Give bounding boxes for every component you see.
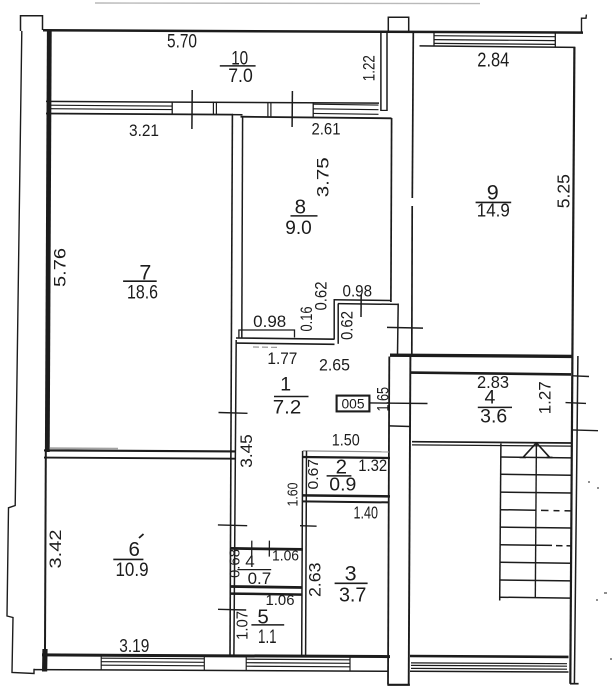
divider wall rooms 2/3/4/5 [301,451,304,655]
svg-text:1.27: 1.27 [536,381,555,414]
door sill hall-stairwell [389,425,410,428]
svg-text:1.22: 1.22 [360,55,379,81]
svg-text:1.07: 1.07 [235,611,252,640]
window room 8 top [313,102,379,117]
small mark above 6 [139,534,144,538]
right wall bottom foot [570,683,579,685]
svg-text:2.84: 2.84 [477,50,509,72]
balcony right wall [381,32,387,112]
svg-text:2.65: 2.65 [319,357,350,375]
step wall verticals [333,301,335,340]
svg-text:1.77: 1.77 [267,350,297,368]
right wall dimension ticks [573,375,589,378]
scan specks right side [588,481,612,660]
svg-text:1.1: 1.1 [258,627,277,648]
balcony bottom wall lower line (room 7 top) [46,114,233,115]
wall between rooms 7 and 8 (left line, continues to room 6) [230,114,232,655]
section wall upper (with scan gap) [412,32,413,198]
room 8 top wall [241,117,392,119]
stairwell bottom wall [410,655,569,659]
building outline top-right corner [582,15,587,33]
window rooms 5/3 bottom [246,655,350,671]
svg-text:7.2: 7.2 [273,397,302,419]
room 4 small bottom wall [231,587,303,588]
chimney block top-middle [388,17,408,31]
room 3 top wall [303,501,390,502]
svg-text:3.19: 3.19 [119,635,149,656]
partition hall/entry left [397,304,400,356]
dimension tick entry wall [387,326,423,329]
exterior wall left [47,31,49,452]
svg-text:1.50: 1.50 [332,430,360,449]
stairwell window bottom [411,663,567,669]
dimension leader 1.65/1.27 [370,402,428,405]
svg-text:1.06: 1.06 [272,549,299,565]
tick room 5 [218,608,246,611]
svg-text:1.65: 1.65 [374,387,392,412]
stairwell top wall [412,442,571,443]
room 4 small top wall [231,548,303,549]
building outline left side [7,31,34,674]
svg-text:2.63: 2.63 [306,563,325,598]
band bottom connector over divider wall [232,114,243,116]
room 5 top wall [231,594,303,595]
svg-text:0.67: 0.67 [305,459,322,490]
stairwell left wall [409,357,411,685]
room 9 top interior line [420,46,576,48]
svg-text:7.0: 7.0 [228,65,253,87]
stairs up arrow [520,443,553,458]
svg-text:1: 1 [280,374,291,396]
gray smudge room6 top wall [50,447,118,450]
room 8 right wall [390,118,393,302]
room 4 top wall [410,373,572,375]
svg-text:005: 005 [342,396,365,411]
tick divider y526 [300,525,317,528]
stairs left boundary [500,444,501,601]
room 9 window top [434,33,555,48]
wall right line lower (hall side) [234,340,236,655]
window room 6 bottom [101,654,204,670]
bottom wall apartment interior face [42,655,390,657]
upper step wall pair [334,299,392,302]
tick hall left wall y413 [219,412,248,415]
landing edge line [412,445,571,446]
svg-text:3.42: 3.42 [46,530,65,569]
svg-text:3.7: 3.7 [339,585,367,607]
svg-text:0.16: 0.16 [298,307,316,332]
stairwell exterior face line bottom [410,670,569,673]
svg-text:10.9: 10.9 [116,559,149,581]
room 9 bottom wall [390,355,572,356]
right wall outer line lower [574,356,578,684]
exterior wall right [570,47,574,684]
svg-text:0.68: 0.68 [227,549,244,578]
chimney block top-left [21,16,43,31]
room 2 bottom wall [302,495,390,496]
svg-text:4: 4 [484,387,495,409]
svg-text:6: 6 [128,538,139,561]
apartment right wall lower [388,357,389,685]
hall top wall pair [236,338,335,339]
ticks room 4 small [251,541,253,557]
svg-text:5.25: 5.25 [554,174,574,208]
stairs center line [535,443,536,598]
svg-text:3: 3 [345,562,357,586]
svg-text:3.45: 3.45 [238,434,256,468]
svg-text:2.61: 2.61 [312,120,341,139]
faint site boundary line top [95,2,480,5]
svg-text:3.6: 3.6 [480,407,507,428]
exterior face line bottom [34,670,388,672]
dimension tick top A [191,90,193,129]
exterior wall top [43,30,583,32]
svg-text:8: 8 [295,196,306,219]
svg-text:3.75: 3.75 [313,157,332,197]
svg-text:1.06: 1.06 [266,592,295,609]
wall rooms 7/8 right line upper [241,117,244,338]
svg-text:1.32: 1.32 [358,456,387,475]
svg-text:5.76: 5.76 [51,248,70,287]
entrance porch bottom edge [387,684,410,686]
svg-text:3.21: 3.21 [129,121,159,140]
svg-text:14.9: 14.9 [477,200,510,221]
window room 7 top [49,102,173,115]
svg-text:0.62: 0.62 [338,311,356,340]
wall room7/room6 [44,450,236,451]
dimension tick 0.98 upper [360,295,362,317]
room 2 top wall [302,457,390,458]
dimension tick top B [291,91,293,127]
stair treads [500,457,571,598]
svg-text:0.62: 0.62 [312,282,330,311]
svg-text:1.40: 1.40 [354,503,379,523]
svg-text:0.9: 0.9 [329,474,356,495]
svg-text:18.6: 18.6 [127,282,158,304]
apartment number plate 005 [337,396,370,412]
gray smudge dashes [253,346,278,348]
mullion post A top band [213,102,216,115]
svg-text:5.70: 5.70 [167,31,197,53]
bottom-left corner block [42,649,48,672]
mullion post B top band [268,102,271,117]
svg-text:1.60: 1.60 [285,483,302,507]
svg-text:0.98: 0.98 [253,313,286,331]
built-in wardrobe 0.98 [239,330,295,339]
svg-text:0.98: 0.98 [343,283,373,301]
room2 dim leader (light) [303,451,389,452]
svg-text:9.0: 9.0 [285,217,312,239]
balcony bottom wall upper line [46,101,379,103]
svg-text:0.7: 0.7 [248,569,272,588]
tick left wall y525 [218,524,247,527]
